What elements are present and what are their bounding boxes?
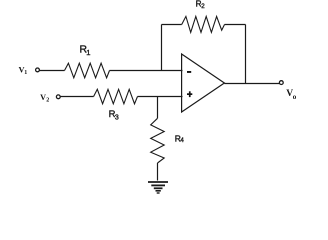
op-amp plus pin mark — [187, 91, 192, 97]
op-amp U1 — [182, 54, 225, 112]
wire feedback top left — [162, 24, 182, 26]
wire output — [224, 83, 279, 85]
resistor R2 — [182, 16, 225, 32]
svg-text:1: 1 — [86, 48, 90, 57]
svg-text:2: 2 — [46, 97, 49, 103]
resistor R1 — [65, 63, 110, 78]
wire feedback left vertical — [161, 25, 163, 71]
svg-text:1: 1 — [24, 70, 27, 76]
svg-text:V: V — [40, 93, 46, 102]
terminal V2 — [56, 95, 60, 99]
svg-text:o: o — [293, 93, 297, 101]
wire R2 to feedback right corner — [225, 24, 246, 26]
resistor R3 — [94, 89, 138, 104]
wire R4 bottom stem — [157, 163, 159, 181]
wire R1 to inverting input — [110, 70, 183, 72]
svg-text:4: 4 — [180, 137, 184, 144]
terminal V1 — [36, 68, 40, 72]
wire V2 to R3 — [60, 96, 93, 98]
svg-text:2: 2 — [201, 3, 205, 10]
wire R3 to non-inverting input — [138, 96, 183, 98]
wire R4 top stem — [157, 97, 159, 119]
ground — [148, 182, 168, 193]
wire feedback right vertical — [245, 25, 247, 84]
op-amp minus pin mark — [187, 71, 191, 73]
terminal Vo — [279, 81, 283, 85]
svg-text:3: 3 — [115, 115, 119, 122]
resistor R4 — [151, 118, 165, 163]
wire V1 to R1 — [40, 70, 65, 72]
